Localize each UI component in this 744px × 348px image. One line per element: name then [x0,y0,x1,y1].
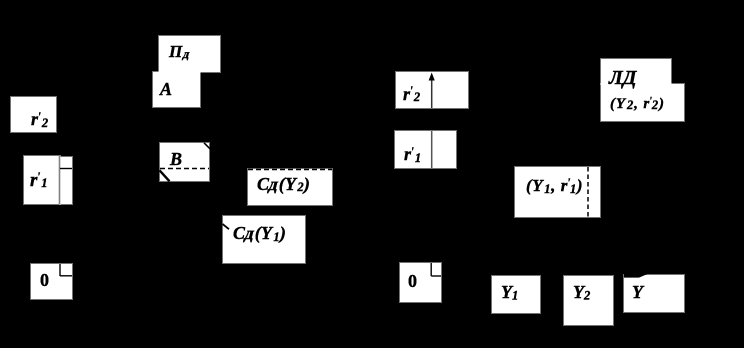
node Y label box [624,275,684,312]
wire gray vertical axis (left chart) [59,155,61,204]
wire dashed level marks on Sd(Y2) top edge [248,168,332,170]
node Y2 label box [564,276,613,325]
node A label box [153,72,200,107]
node r'1 label box (left chart) [24,156,60,204]
wire dashed level line across B box [160,168,209,170]
wire black vertical axis in r'1 box (right chart) [431,131,433,168]
node Y1 label box [492,276,540,313]
wire curve segment at Sd(Y1) box top-left corner [223,224,230,229]
node Sd(Y1) label box [223,216,305,264]
wire origin horizontal axis segment (right chart) [431,275,441,277]
wire dashed vertical line in (Y1,r'1) box [587,167,589,217]
white strip right of r'1 box (left chart) [60,157,72,204]
node r'1 label box (right chart) [395,131,456,168]
wire origin vertical axis segment (right chart) [430,263,432,276]
wire origin horizontal axis segment (left chart) [60,275,72,277]
node Sd(Y2) label box [248,169,332,205]
arrowhead of vertical axis (right chart) [429,73,435,81]
node r'2 label box (left chart) [11,97,56,132]
wire curve segment at B box top-right corner [204,143,210,149]
wire curve notch at Y box top-left [624,274,648,278]
node B label box [160,143,209,181]
wire curve segment at B box bottom-left corner [160,170,170,181]
node Pd label box [159,36,220,72]
node LD label box lower part [601,84,684,121]
wire black r'1 level line segment (left chart) [60,168,72,170]
node (Y1, r'1) label box [515,167,600,217]
wire origin vertical axis segment (left chart) [59,264,61,276]
node 0 label box (left chart origin) [31,264,72,299]
node LD label box upper part [601,59,672,85]
node 0 label box (right chart origin) [400,263,441,302]
wire black vertical axis in r'2 box (right chart) [431,79,433,108]
node r'2 label box (right chart) [396,72,468,109]
